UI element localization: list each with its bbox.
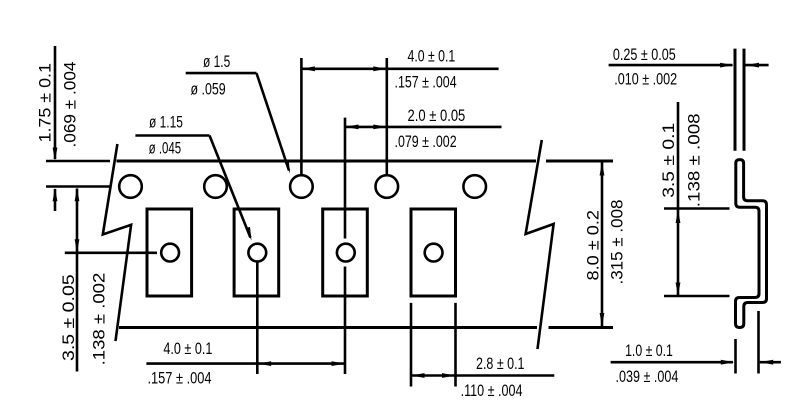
dimension 4.0 bottom left arrow	[258, 361, 272, 366]
svg-text:4.0 ± 0.1: 4.0 ± 0.1	[408, 48, 456, 66]
svg-text:2.0 ± 0.05: 2.0 ± 0.05	[408, 107, 466, 125]
pocket hole center extension line left	[65, 252, 157, 255]
sprocket hole 2	[204, 175, 227, 198]
dimension 4.0 top right arrow	[373, 66, 387, 71]
leader arrow at pocket 2 hole	[245, 227, 251, 241]
right break line	[526, 140, 554, 349]
dimension 1.75 upper arrow	[53, 148, 58, 162]
leader shelf for ø 1.15	[135, 134, 209, 137]
svg-text:2.8 ± 0.1: 2.8 ± 0.1	[476, 355, 525, 373]
svg-text:.010 ± .002: .010 ± .002	[614, 70, 677, 88]
svg-text:1.0 ± 0.1: 1.0 ± 0.1	[625, 342, 673, 360]
sprocket 4 extension line	[385, 58, 388, 174]
dimension 4.0 bottom right arrow	[332, 361, 346, 366]
svg-text:.157 ± .004: .157 ± .004	[148, 369, 212, 387]
svg-text:.079 ± .002: .079 ± .002	[395, 133, 457, 151]
dimension 1.75 lower line	[54, 189, 57, 211]
sprocket 3 extension line	[300, 58, 303, 174]
dimension 2.8 right arrow	[442, 373, 456, 378]
dimension 0.25 line	[609, 64, 733, 67]
leader shelf for ø 1.5	[186, 72, 257, 75]
dimension 8.0 top arrow	[600, 162, 605, 176]
svg-text:.138 ± .008: .138 ± .008	[686, 113, 704, 207]
dimension 3.5 side up arrow	[676, 210, 681, 224]
tape top edge right extension	[546, 160, 613, 163]
left break line	[103, 144, 131, 341]
pocket 2 hole	[248, 244, 266, 262]
dimension 1.0 line	[611, 361, 733, 364]
pocket 1	[147, 209, 192, 296]
svg-text:8.0 ± 0.2: 8.0 ± 0.2	[585, 210, 603, 281]
dimension 1.0 left-pointing arrow	[760, 360, 774, 365]
side view tape front line	[734, 49, 737, 151]
svg-text:ø 1.15: ø 1.15	[149, 114, 183, 132]
pocket 4 right extension line	[454, 303, 457, 387]
leader arrow at sprocket hole 3	[284, 160, 290, 174]
dimension 3.5 left line	[76, 189, 79, 372]
dimension 1.75 lower arrow	[53, 188, 58, 202]
dimension 2.0 left arrow	[345, 125, 359, 130]
pocket 1 hole	[161, 244, 179, 262]
tape bottom edge right extension	[549, 326, 614, 329]
dimension 1.75 upper line	[54, 46, 57, 159]
dimension 1.0 right tail	[760, 361, 781, 364]
dimension 0.25 right-pointing arrow	[720, 63, 734, 68]
leader line to pocket 2 hole	[210, 136, 251, 238]
dimension 3.5 side down arrow	[676, 283, 681, 297]
sprocket hole 3	[290, 175, 313, 198]
tape top edge	[117, 160, 537, 163]
dimension 2.0 line	[345, 126, 502, 129]
svg-text:3.5 ± 0.1: 3.5 ± 0.1	[660, 123, 678, 198]
pocket 2 center line	[256, 263, 259, 375]
dimension 2.8 left arrow	[411, 373, 425, 378]
leader line to sprocket hole 3	[257, 73, 290, 170]
dimension 4.0 top line	[301, 68, 498, 71]
side view pocket profile	[736, 160, 767, 328]
pocket 3 center line	[344, 118, 347, 239]
svg-text:ø .045: ø .045	[149, 140, 182, 158]
sprocket hole 1	[119, 175, 142, 198]
side 3.5 upper reference line	[664, 207, 730, 210]
sprocket hole center extension line left	[46, 185, 110, 188]
dimension 0.25 left-pointing arrow	[746, 63, 760, 68]
svg-text:ø 1.5: ø 1.5	[203, 53, 230, 71]
side 3.5 lower reference line	[664, 295, 730, 298]
svg-text:ø .059: ø .059	[191, 80, 226, 98]
dimension 1.0 right extension line	[757, 311, 760, 374]
tape top edge left extension	[46, 160, 110, 163]
svg-text:.069 ± .004: .069 ± .004	[62, 62, 80, 148]
tape bottom edge	[119, 326, 537, 329]
svg-text:.315 ± .008: .315 ± .008	[609, 200, 627, 285]
dimension 4.0 bottom line	[146, 362, 345, 365]
pocket 3 hole	[337, 244, 355, 262]
dimension 1.0 left extension line	[734, 339, 737, 374]
pocket 4 hole	[425, 244, 443, 262]
pocket 4	[411, 209, 456, 296]
sprocket hole 5	[463, 175, 486, 198]
svg-text:.110 ± .004: .110 ± .004	[461, 382, 523, 400]
svg-text:.039 ± .004: .039 ± .004	[616, 368, 679, 386]
svg-text:.157 ± .004: .157 ± .004	[395, 74, 457, 92]
dimension 3.5 left bottom arrow	[75, 239, 80, 253]
pocket 3	[323, 209, 368, 296]
dimension 3.5 left top arrow	[75, 188, 80, 202]
dimension 8.0 line	[601, 162, 604, 327]
dimension 1.0 right-pointing arrow	[721, 360, 735, 365]
side view tape back line	[743, 49, 746, 151]
pocket 2	[234, 209, 279, 296]
svg-text:4.0 ± 0.1: 4.0 ± 0.1	[163, 340, 212, 358]
dimension 3.5 side line	[677, 102, 680, 296]
dimension 8.0 bottom arrow	[600, 313, 605, 327]
dimension 2.0 right arrow	[373, 125, 387, 130]
sprocket hole 4	[376, 175, 399, 198]
svg-text:0.25 ± 0.05: 0.25 ± 0.05	[613, 46, 676, 64]
dimension 4.0 top left arrow	[301, 66, 315, 71]
svg-text:1.75 ± 0.1: 1.75 ± 0.1	[37, 63, 55, 143]
svg-text:3.5 ± 0.05: 3.5 ± 0.05	[60, 274, 78, 361]
dimension 2.8 line	[411, 374, 554, 377]
pocket 4 left extension line	[410, 303, 413, 387]
svg-text:.138 ± .002: .138 ± .002	[91, 273, 109, 366]
dimension 0.25 right tail	[746, 64, 769, 67]
